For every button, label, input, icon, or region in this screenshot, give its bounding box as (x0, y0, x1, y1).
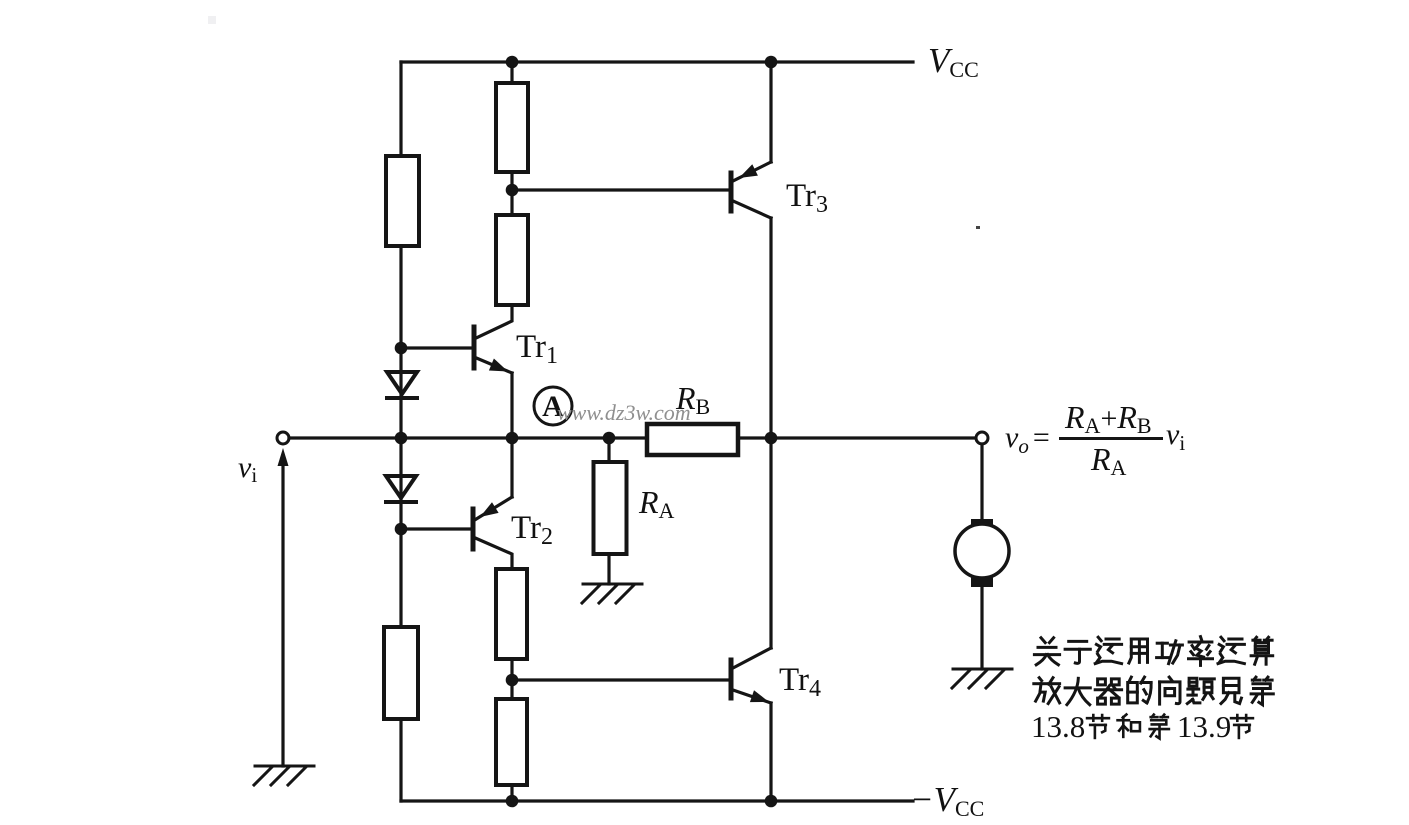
node junction bottom rail / output column (765, 795, 778, 808)
node output junction (765, 432, 778, 445)
diode D2 (386, 476, 416, 502)
wire input reference arrow (281, 460, 284, 766)
motor M brush top (971, 519, 993, 528)
resistor R-left-bottom (384, 627, 418, 719)
ground R_A (582, 584, 642, 603)
svg-text:13.8: 13.8 (1031, 709, 1085, 744)
node Tr4 base junction (506, 674, 519, 687)
svg-text:RA: RA (638, 484, 675, 523)
terminal input open circle (277, 432, 289, 444)
note chinese caption line 3: 13.8节和第13.9节 (1031, 709, 1253, 744)
diode D1 (387, 372, 417, 398)
wire R-mid-3 to R-mid-4 (510, 659, 513, 699)
wire R-mid-4 to bottom rail (510, 785, 513, 801)
svg-text:RA: RA (1090, 441, 1127, 480)
wire Tr1 collector (474, 305, 512, 339)
svg-text:RB: RB (675, 380, 710, 419)
node Tr2 base junction (395, 523, 408, 536)
wire R_A to ground (607, 554, 610, 584)
wire R_A (607, 438, 610, 462)
resistor R-mid-1 (496, 83, 528, 172)
motor M body (955, 524, 1009, 578)
wire top supply rail (401, 60, 913, 63)
svg-text:VCC: VCC (928, 41, 979, 82)
svg-text:Tr3: Tr3 (786, 178, 828, 218)
node Tr3 base junction (506, 184, 519, 197)
node Tr1 base junction (395, 342, 408, 355)
wire left column to Tr1 base node (399, 246, 402, 372)
resistor R-left-top (386, 156, 419, 246)
wire output terminal to motor (980, 444, 983, 520)
wire motor to ground (980, 587, 983, 669)
wire middle column from top rail (510, 62, 513, 83)
wire Tr1 base (401, 346, 472, 349)
wire through diode D1 to input node (399, 372, 402, 476)
wire Tr4 base (512, 678, 730, 681)
ground motor (952, 669, 1012, 688)
svg-text:vi: vi (1166, 418, 1185, 455)
transistor Tr4 (731, 438, 771, 801)
svg-text:vo=: vo= (1005, 421, 1050, 458)
node A junction (506, 432, 519, 445)
resistor R_B (647, 424, 738, 455)
transistor Tr1 (474, 327, 512, 438)
formula v_o = (R_A+R_B)/R_A v_i (1005, 399, 1185, 480)
node junction bottom rail / middle column (506, 795, 519, 808)
svg-text:Tr4: Tr4 (779, 662, 821, 702)
resistor R-mid-3 (496, 569, 527, 659)
node A circle marker (534, 387, 572, 425)
resistor R-mid-2 (496, 215, 528, 305)
resistor R_A (594, 462, 627, 554)
transistor Tr2 (473, 438, 512, 569)
motor M brush bottom (971, 577, 993, 587)
svg-text:Tr1: Tr1 (516, 329, 558, 369)
ground input (254, 766, 314, 785)
wire left column from top rail (399, 62, 402, 156)
note chinese caption line 2: 放大器的问题见第 (1034, 677, 1274, 705)
svg-text:−VCC: −VCC (910, 780, 984, 821)
terminal output open circle (976, 432, 988, 444)
node input junction (395, 432, 408, 445)
node R_A tap junction (603, 432, 616, 445)
resistor R-mid-4 (496, 699, 527, 785)
wire node to R_B (401, 436, 647, 439)
wire R_B to output (738, 436, 976, 439)
node junction top rail / middle column (506, 56, 519, 69)
wire bottom supply rail (401, 799, 913, 802)
scan speck (976, 226, 980, 229)
svg-text:www.dz3w.com: www.dz3w.com (557, 400, 691, 425)
svg-text:13.9: 13.9 (1177, 709, 1231, 744)
wire left column to bottom rail (399, 719, 402, 801)
transistor Tr3 (731, 62, 771, 438)
wire through diode D2 to Tr2 base node (399, 476, 402, 627)
wire R-mid-1 to R-mid-2 (510, 172, 513, 215)
wire Tr3 base (512, 188, 730, 191)
svg-text:RA+RB: RA+RB (1064, 399, 1152, 438)
wire input terminal to node (289, 436, 401, 439)
node junction top rail / output column (765, 56, 778, 69)
note chinese caption line 1: 关于运用功率运算 (1034, 637, 1272, 666)
wire Tr2 base (401, 527, 473, 530)
svg-text:vi: vi (238, 451, 257, 487)
svg-text:Tr2: Tr2 (511, 510, 553, 550)
scan smudge (208, 16, 216, 24)
